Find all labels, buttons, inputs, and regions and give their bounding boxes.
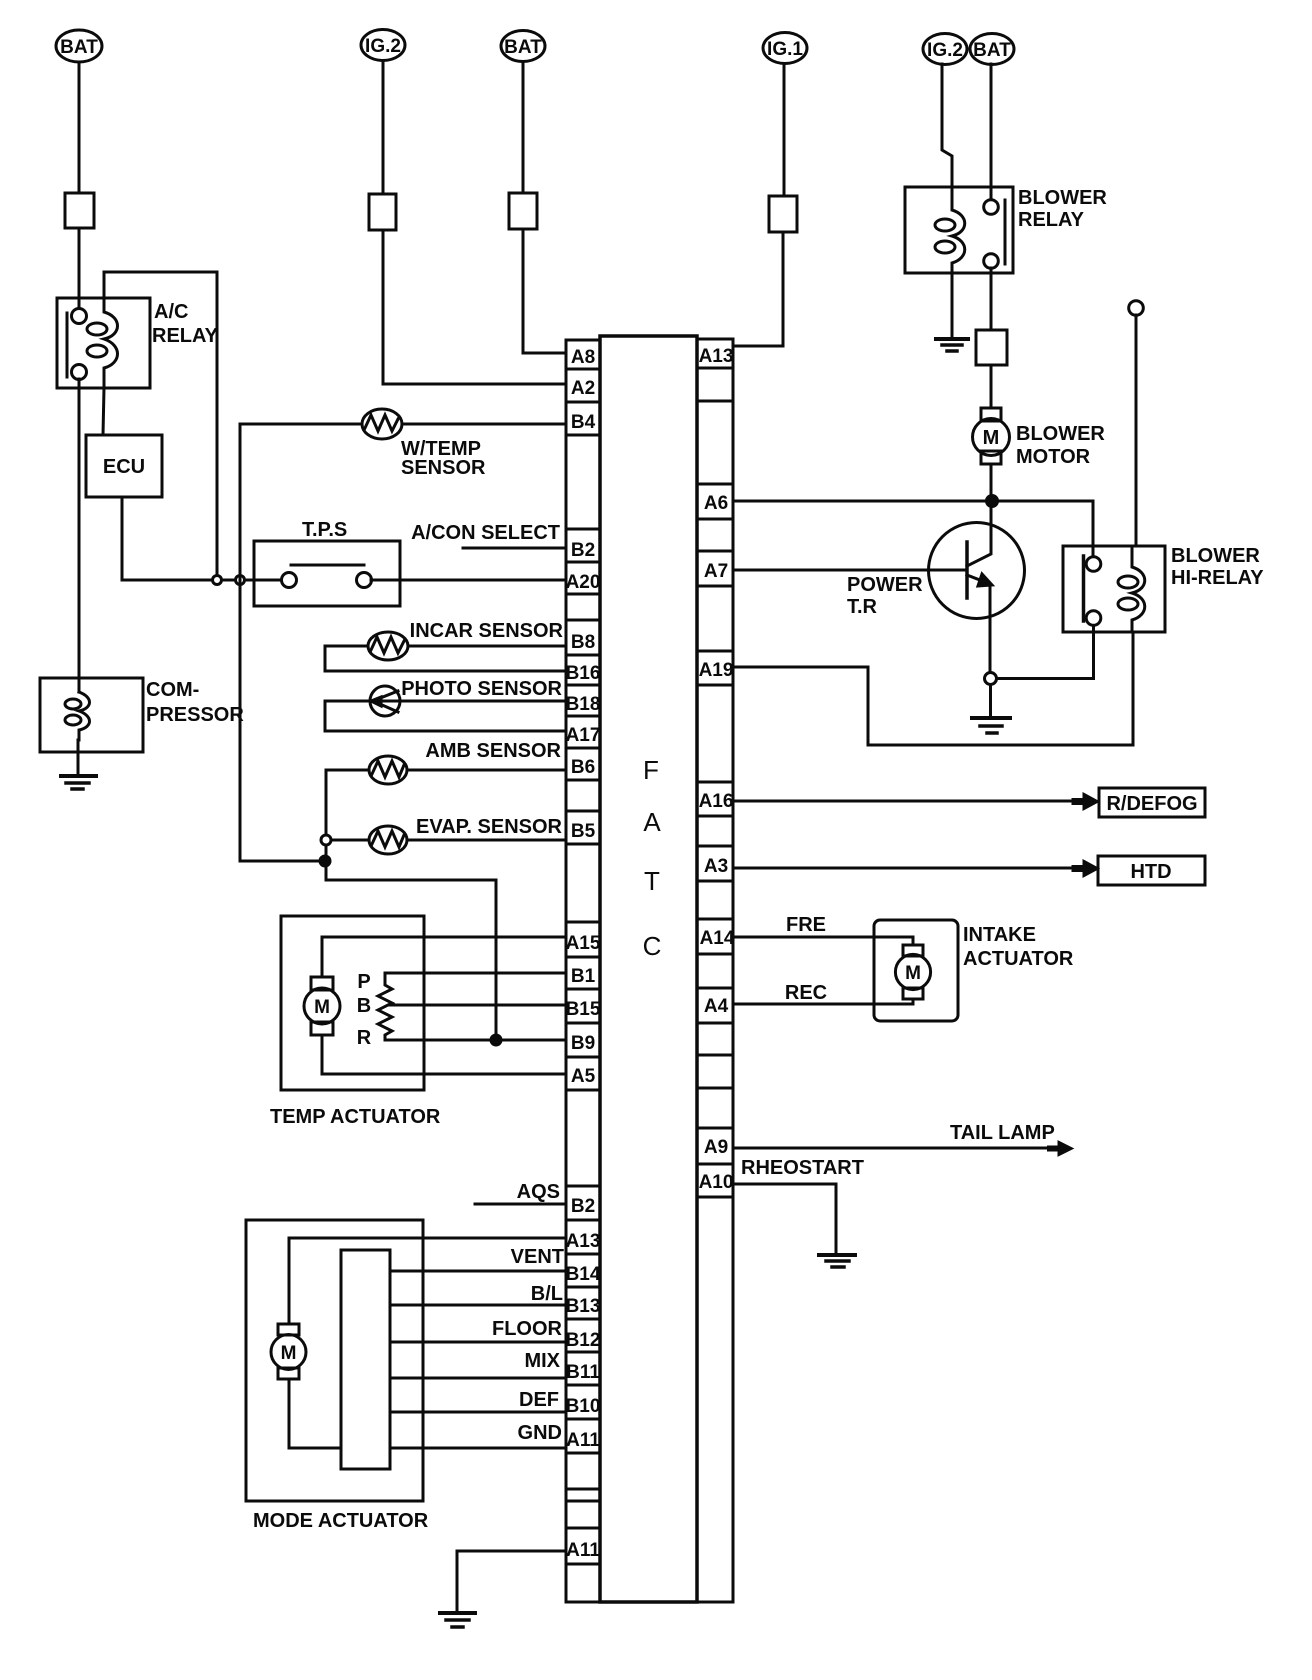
wire P terminal to pin B1 bbox=[385, 972, 566, 975]
svg-text:B11: B11 bbox=[566, 1362, 600, 1383]
wire MIX to pin B11 bbox=[390, 1377, 566, 1380]
svg-text:T: T bbox=[644, 866, 660, 896]
svg-text:A20: A20 bbox=[566, 572, 601, 593]
svg-text:B16: B16 bbox=[566, 663, 601, 684]
wire terminal circle to hi-relay coil bbox=[1135, 315, 1138, 546]
FATC left pin column bbox=[566, 340, 600, 1602]
intake actuator motor M bbox=[903, 945, 923, 956]
svg-text:IG.2: IG.2 bbox=[365, 36, 401, 57]
arrow to R/DEFOG bbox=[1075, 798, 1085, 805]
wire W/TEMP sensor left lead down to evap node bbox=[240, 424, 362, 861]
wire B terminal to pin B15 bbox=[389, 1004, 566, 1007]
svg-text:B15: B15 bbox=[566, 999, 601, 1020]
A/C relay switch bar bbox=[66, 313, 69, 377]
svg-text:B5: B5 bbox=[571, 821, 596, 842]
INCAR sensor thermistor body bbox=[368, 632, 408, 660]
wire pin A11 to ground bbox=[457, 1551, 566, 1612]
svg-text:A19: A19 bbox=[699, 660, 734, 681]
svg-text:A14: A14 bbox=[700, 928, 735, 949]
svg-text:EVAP. SENSOR: EVAP. SENSOR bbox=[416, 816, 563, 838]
wire B/L to pin B13 bbox=[390, 1304, 566, 1307]
wire pin A16 to R/DEFOG bbox=[733, 800, 1075, 803]
left pin labels bbox=[566, 347, 601, 1561]
svg-text:AQS: AQS bbox=[517, 1181, 560, 1203]
blower hi-relay K3 box bbox=[1063, 546, 1165, 632]
wire ECU to TPS bbox=[122, 497, 289, 580]
wire A/C relay coil top to node over to TPS feed bbox=[104, 272, 217, 580]
svg-text:B9: B9 bbox=[571, 1033, 595, 1054]
ground (transistor) bbox=[972, 716, 1010, 720]
svg-text:T.R: T.R bbox=[847, 596, 878, 618]
A/C relay K1 box bbox=[57, 298, 150, 388]
fuse F2 bbox=[369, 194, 396, 230]
wire fuse F2 to pin A2 bbox=[383, 230, 566, 384]
svg-text:FRE: FRE bbox=[786, 914, 826, 936]
wire pin A9 to tail lamp bbox=[733, 1147, 1052, 1150]
EVAP sensor thermistor body bbox=[369, 826, 407, 854]
svg-text:A17: A17 bbox=[566, 725, 601, 746]
compressor coil bbox=[79, 692, 90, 740]
wire fuse F3 to pin A8 bbox=[523, 229, 566, 353]
svg-text:BLOWER: BLOWER bbox=[1018, 187, 1107, 209]
svg-text:B: B bbox=[357, 995, 371, 1017]
wire pin A19 to hi-relay coil bottom bbox=[733, 632, 1133, 745]
wire T.P.S to pin A20 bbox=[371, 579, 566, 582]
svg-text:INTAKE: INTAKE bbox=[963, 924, 1036, 946]
wire fuse F5 to blower motor bbox=[990, 365, 993, 408]
svg-text:A: A bbox=[643, 807, 661, 837]
svg-text:TAIL LAMP: TAIL LAMP bbox=[950, 1122, 1055, 1144]
wire BAT into blower relay bbox=[990, 64, 993, 200]
svg-text:A11: A11 bbox=[566, 1540, 600, 1561]
AMB sensor thermistor body bbox=[369, 756, 407, 784]
svg-text:B13: B13 bbox=[566, 1296, 601, 1317]
svg-text:A8: A8 bbox=[571, 347, 595, 368]
mode actuator slider rect bbox=[341, 1250, 390, 1469]
svg-text:GND: GND bbox=[518, 1422, 562, 1444]
terminal BAT (second) bbox=[501, 31, 545, 62]
mode actuator motor M bbox=[278, 1324, 299, 1335]
svg-text:A13: A13 bbox=[699, 346, 734, 367]
wire pin A13 to mode motor bbox=[289, 1238, 566, 1324]
ground (rheostart) bbox=[819, 1253, 855, 1257]
wire pin A3 to HTD bbox=[733, 867, 1075, 870]
T.P.S box bbox=[254, 541, 400, 606]
svg-text:B14: B14 bbox=[566, 1264, 601, 1285]
wire BAT to fuse F3 bbox=[522, 62, 525, 193]
svg-text:A16: A16 bbox=[699, 791, 734, 812]
FATC right pin column bbox=[697, 339, 733, 1602]
hi-relay switch bar bbox=[1082, 556, 1086, 621]
hi-relay contact circles bbox=[1086, 557, 1101, 572]
svg-text:RELAY: RELAY bbox=[1018, 209, 1085, 231]
svg-text:RELAY: RELAY bbox=[152, 325, 219, 347]
fuse F5 bbox=[976, 330, 1007, 365]
svg-text:ECU: ECU bbox=[103, 456, 145, 478]
svg-text:F: F bbox=[643, 755, 659, 785]
wire INCAR sensor left lead to pin B16 bbox=[325, 646, 566, 671]
svg-text:PRESSOR: PRESSOR bbox=[146, 704, 244, 726]
wire AQS to pin B2 bbox=[475, 1203, 566, 1206]
svg-text:IG.1: IG.1 bbox=[767, 39, 803, 60]
wire pin A6 to blower hi-relay contact bbox=[733, 501, 1093, 557]
wire blower relay coil to ground bbox=[951, 273, 954, 338]
svg-text:A11: A11 bbox=[566, 1430, 600, 1451]
power transistor Q1 body bbox=[929, 523, 1025, 619]
svg-text:B2: B2 bbox=[571, 540, 595, 561]
terminal IG.1 bbox=[763, 33, 807, 64]
svg-text:COM-: COM- bbox=[146, 679, 199, 701]
T.P.S contact circles bbox=[282, 573, 297, 588]
svg-text:M: M bbox=[281, 1343, 297, 1364]
wire emitter down to terminal circle bbox=[989, 585, 992, 672]
wire pin A4 (REC) to intake motor bbox=[733, 999, 913, 1004]
svg-text:M: M bbox=[314, 997, 330, 1018]
wire VENT to pin B14 bbox=[390, 1270, 566, 1273]
svg-text:A/C: A/C bbox=[154, 301, 188, 323]
wire blower relay to fuse F5 bbox=[990, 268, 993, 330]
blower relay switch bar bbox=[1004, 200, 1007, 264]
svg-text:A4: A4 bbox=[704, 996, 729, 1017]
blower relay K2 box bbox=[905, 187, 1013, 273]
svg-text:A15: A15 bbox=[566, 933, 601, 954]
svg-text:MODE ACTUATOR: MODE ACTUATOR bbox=[253, 1510, 429, 1532]
wire DEF to pin B10 bbox=[390, 1411, 566, 1414]
ground (A11) bbox=[440, 1611, 475, 1615]
svg-text:A9: A9 bbox=[704, 1137, 728, 1158]
wire fuse F1 to A/C relay bbox=[78, 228, 81, 309]
svg-text:A2: A2 bbox=[571, 378, 595, 399]
svg-text:IG.2: IG.2 bbox=[927, 40, 963, 61]
junction node wtemp feed bbox=[320, 856, 330, 866]
svg-text:A7: A7 bbox=[704, 561, 728, 582]
R/DEFOG box bbox=[1099, 788, 1205, 817]
ground (compressor) bbox=[61, 774, 96, 778]
wire PHOTO sensor to pin B18 bbox=[400, 700, 566, 703]
wire W/TEMP sensor to pin B4 bbox=[402, 423, 566, 426]
svg-text:REC: REC bbox=[785, 982, 827, 1004]
junction node B9 feed bbox=[491, 1035, 501, 1045]
wire pin A10 (rheostart) to ground bbox=[733, 1184, 836, 1254]
TEMP ACTUATOR box bbox=[281, 916, 424, 1090]
svg-text:B6: B6 bbox=[571, 757, 595, 778]
PHOTO sensor body bbox=[370, 686, 400, 716]
svg-text:A5: A5 bbox=[571, 1066, 596, 1087]
svg-text:ACTUATOR: ACTUATOR bbox=[963, 948, 1074, 970]
T.P.S switch lever bbox=[291, 564, 364, 567]
svg-text:BAT: BAT bbox=[60, 37, 98, 58]
svg-text:HTD: HTD bbox=[1130, 861, 1171, 883]
svg-text:RHEOSTART: RHEOSTART bbox=[741, 1157, 864, 1179]
junction node at x217 bbox=[213, 576, 222, 585]
ground (blower relay) bbox=[936, 337, 968, 341]
svg-text:M: M bbox=[905, 963, 921, 984]
svg-text:AMB SENSOR: AMB SENSOR bbox=[425, 740, 561, 762]
wire A/C relay switch to compressor bbox=[78, 379, 81, 692]
svg-text:B18: B18 bbox=[566, 694, 601, 715]
svg-text:B8: B8 bbox=[571, 632, 595, 653]
svg-text:MOTOR: MOTOR bbox=[1016, 446, 1091, 468]
wire AMB sensor left lead down bbox=[326, 770, 496, 1040]
wire pin A7 to transistor base bbox=[733, 569, 966, 572]
hi-relay coil bbox=[1132, 546, 1145, 632]
svg-text:B10: B10 bbox=[566, 1396, 601, 1417]
HTD box bbox=[1098, 856, 1205, 885]
svg-text:A10: A10 bbox=[699, 1172, 734, 1193]
emitter terminal circle bbox=[985, 673, 997, 685]
svg-text:R: R bbox=[357, 1027, 372, 1049]
svg-text:B2: B2 bbox=[571, 1196, 595, 1217]
svg-text:A/CON SELECT: A/CON SELECT bbox=[411, 522, 560, 544]
wire BAT to fuse F1 bbox=[78, 62, 81, 193]
svg-text:B4: B4 bbox=[571, 412, 596, 433]
blower relay contact circles bbox=[984, 200, 999, 215]
wire blower motor to node bbox=[990, 464, 993, 501]
arrow to HTD bbox=[1075, 865, 1085, 872]
fuse F1 bbox=[65, 193, 94, 228]
svg-text:R/DEFOG: R/DEFOG bbox=[1106, 793, 1197, 815]
A/C relay contact circles bbox=[72, 309, 87, 324]
junction node at x240 bbox=[236, 576, 245, 585]
open terminal circle top right bbox=[1129, 301, 1144, 316]
svg-text:PHOTO SENSOR: PHOTO SENSOR bbox=[401, 678, 562, 700]
wire IG.1 to fuse F4 bbox=[783, 64, 786, 196]
FATC connector main box bbox=[600, 336, 697, 1602]
junction node blower motor bbox=[987, 496, 998, 507]
transistor base bar bbox=[965, 542, 969, 598]
fuse F3 bbox=[509, 193, 537, 229]
wire IG.2 to blower relay coil bbox=[942, 64, 952, 187]
wire FLOOR to pin B12 bbox=[390, 1341, 566, 1344]
svg-text:P: P bbox=[357, 971, 370, 993]
right column cell dividers bbox=[697, 368, 733, 1197]
svg-text:TEMP ACTUATOR: TEMP ACTUATOR bbox=[270, 1106, 441, 1128]
wire mode motor to slider bbox=[289, 1379, 341, 1448]
terminal BAT (left) bbox=[56, 30, 102, 62]
wire R terminal to pin B9 bbox=[385, 1039, 566, 1042]
wire pin A15 to temp motor bbox=[322, 937, 566, 977]
INTAKE ACTUATOR box bbox=[874, 920, 958, 1021]
junction node evap lead bbox=[321, 835, 331, 845]
wire A/CON SELECT to pin B2 bbox=[463, 547, 566, 550]
wire PHOTO sensor left lead to pin A17 bbox=[325, 701, 566, 731]
wire EVAP sensor to pin B5 bbox=[407, 839, 566, 842]
svg-text:B12: B12 bbox=[566, 1330, 601, 1351]
svg-text:BAT: BAT bbox=[973, 40, 1011, 61]
svg-text:MIX: MIX bbox=[524, 1350, 560, 1372]
A/C relay coil with feed to ECU bbox=[103, 272, 118, 435]
svg-text:T.P.S: T.P.S bbox=[302, 519, 347, 541]
terminal IG.2 (right) bbox=[923, 34, 967, 65]
MODE ACTUATOR box bbox=[246, 1220, 423, 1501]
svg-text:M: M bbox=[983, 427, 1000, 449]
left column cell dividers bbox=[566, 369, 600, 1564]
wire emitter circle to hi-relay lower contact bbox=[997, 626, 1094, 679]
svg-text:A3: A3 bbox=[704, 856, 728, 877]
svg-text:BLOWER: BLOWER bbox=[1016, 423, 1105, 445]
svg-text:BLOWER: BLOWER bbox=[1171, 545, 1260, 567]
wire GND to pin A11 bbox=[390, 1447, 566, 1450]
fuse F4 bbox=[769, 196, 797, 232]
svg-text:HI-RELAY: HI-RELAY bbox=[1171, 567, 1264, 589]
blower motor M bbox=[981, 408, 1001, 421]
svg-text:SENSOR: SENSOR bbox=[401, 457, 486, 479]
terminal BAT (right) bbox=[970, 34, 1014, 65]
wire IG.2 to fuse F2 bbox=[382, 61, 385, 194]
wire compressor to ground bbox=[77, 740, 80, 776]
compressor box bbox=[40, 678, 143, 752]
wire temp motor to pin A5 bbox=[322, 1035, 566, 1074]
wire pin A14 (FRE) to intake motor bbox=[733, 937, 913, 945]
svg-text:FLOOR: FLOOR bbox=[492, 1318, 563, 1340]
svg-text:INCAR SENSOR: INCAR SENSOR bbox=[410, 620, 564, 642]
wire fuse F4 to pin A13 bbox=[733, 232, 783, 346]
temp actuator motor M bbox=[311, 977, 333, 990]
ECU box U2 bbox=[86, 435, 162, 497]
svg-text:B/L: B/L bbox=[531, 1283, 563, 1305]
svg-text:POWER: POWER bbox=[847, 574, 923, 596]
wire INCAR sensor to pin B8 bbox=[408, 645, 566, 648]
svg-text:BAT: BAT bbox=[504, 37, 542, 58]
terminal IG.2 (second) bbox=[361, 30, 405, 61]
transistor emitter with arrow bbox=[967, 575, 985, 582]
svg-text:A13: A13 bbox=[566, 1231, 601, 1252]
wire AMB sensor to pin B6 bbox=[407, 769, 566, 772]
wire EVAP sensor left lead bbox=[331, 839, 369, 842]
temp actuator feedback resistor bbox=[378, 973, 392, 1040]
svg-text:A6: A6 bbox=[704, 493, 728, 514]
blower relay coil bbox=[952, 187, 965, 273]
svg-text:DEF: DEF bbox=[519, 1389, 559, 1411]
wire emitter circle to ground bbox=[989, 685, 992, 717]
right pin labels bbox=[699, 346, 735, 1193]
svg-text:B1: B1 bbox=[571, 966, 596, 987]
svg-text:VENT: VENT bbox=[511, 1246, 564, 1268]
svg-text:C: C bbox=[643, 931, 662, 961]
W/TEMP sensor thermistor body bbox=[362, 409, 402, 439]
arrow tail lamp bbox=[1050, 1146, 1060, 1152]
transistor collector bbox=[967, 501, 991, 566]
